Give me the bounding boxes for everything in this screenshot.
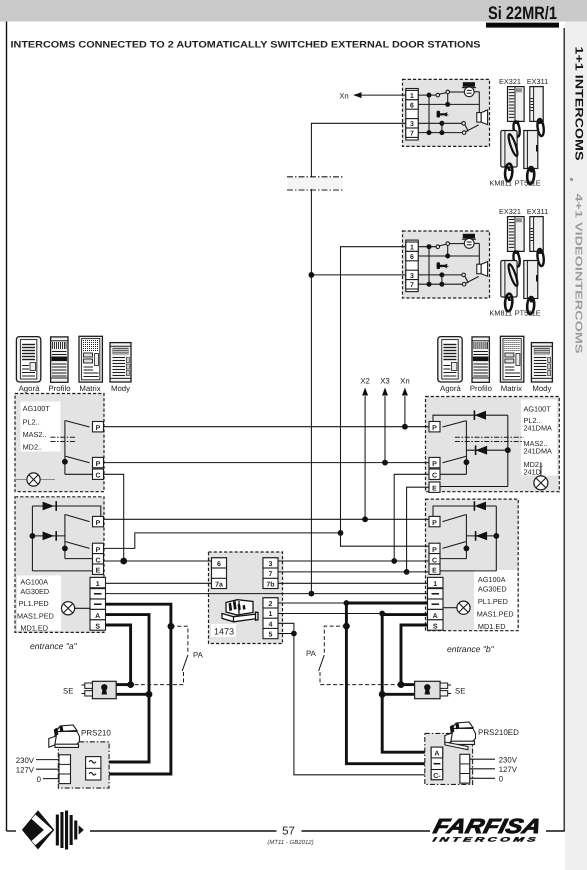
Mody icon — [110, 343, 131, 382]
C row internal wire — [440, 473, 466, 475]
Xn arrow wire from intercom1 terminal 1 — [354, 94, 406, 96]
footer rule mid-right segment — [302, 830, 431, 832]
label backgrounds — [521, 400, 557, 476]
svg-text:PRS210: PRS210 — [81, 729, 111, 738]
mains wires — [470, 758, 495, 760]
wire C vertical left (upper C to lower C row) — [104, 474, 124, 561]
terminal A — [428, 609, 444, 619]
buzzer body — [464, 87, 474, 97]
label backgrounds — [21, 402, 61, 452]
terminal minus — [428, 589, 444, 599]
junction dot C riser left — [120, 558, 127, 565]
wire E vertical right (upper E jog down to lower E row) — [407, 487, 429, 572]
junction dot row6/buzzer — [445, 102, 450, 107]
svg-text:PL2..: PL2.. — [23, 418, 40, 427]
svg-text:E: E — [432, 486, 437, 493]
wire P row (lower boxes) — [104, 518, 430, 520]
ACI Farfisa diamond logo (footer left) — [16, 806, 90, 854]
junction dot E riser right — [404, 569, 410, 575]
svg-text:S: S — [95, 624, 100, 631]
terminal P — [429, 543, 440, 553]
riser wire A from intercom1 terminal 3 — [311, 123, 405, 593]
terminal S — [90, 620, 106, 630]
label backgrounds — [17, 576, 61, 631]
svg-text:0: 0 — [37, 775, 42, 784]
diode D1 (right box) — [475, 502, 487, 511]
SE right stub bottom — [382, 693, 414, 696]
junction dot riser A / minus bus — [309, 591, 315, 597]
wire 1473 terminal 7 to right box E — [278, 571, 429, 573]
svg-text:P: P — [432, 547, 437, 554]
terminal P — [93, 516, 104, 526]
terminal C — [93, 554, 104, 564]
junction dot diode loop — [30, 533, 36, 539]
svg-text:Xn: Xn — [339, 91, 349, 100]
PRS210ED output terminal block A,-,C — [431, 747, 443, 780]
lamp wires — [15, 479, 27, 481]
svg-text:AG100T: AG100T — [524, 405, 552, 414]
row-3 switch blade — [465, 125, 469, 132]
label 1473 — [211, 624, 236, 637]
wire C vertical right (upper C jog down to lower C row) — [394, 474, 429, 561]
junction dot riser B end — [338, 530, 344, 536]
svg-text:SE: SE — [63, 687, 73, 696]
junction dot Xn/P row — [402, 424, 408, 430]
svg-text:Matrix: Matrix — [79, 384, 100, 393]
svg-text:0: 0 — [499, 775, 504, 784]
terminal P — [93, 543, 104, 553]
switch blade 2 — [66, 456, 90, 463]
C row internal wire — [65, 473, 93, 475]
SE right stub top — [401, 683, 415, 686]
svg-text:PRS210ED: PRS210ED — [478, 728, 519, 737]
svg-text:5: 5 — [269, 632, 273, 639]
svg-text:P: P — [96, 425, 101, 432]
svg-text:EX311: EX311 — [527, 77, 548, 86]
terminal minus — [90, 589, 106, 599]
EX311 hanging handset — [538, 121, 543, 124]
svg-text:C: C — [432, 557, 437, 564]
svg-text:241D: 241D — [524, 468, 541, 477]
terminal P — [429, 422, 440, 432]
KM811 handset lying across — [507, 133, 519, 156]
1473 enclosure — [209, 552, 283, 644]
intercom model icons row (right group) — [438, 336, 553, 393]
vertical wire right of diodes — [507, 415, 509, 486]
svg-text:AG30ED: AG30ED — [20, 587, 49, 596]
lamp (crossed circle) — [27, 473, 40, 486]
terminal 1 — [428, 577, 444, 587]
header gray band — [0, 0, 587, 22]
svg-text:PL1.PED: PL1.PED — [478, 597, 508, 606]
svg-text:241DMA: 241DMA — [524, 424, 553, 433]
terminal P — [429, 457, 440, 467]
svg-text:P: P — [432, 425, 437, 432]
lamp (crossed circle) — [62, 602, 75, 615]
svg-text:X2: X2 — [360, 377, 370, 386]
Agora icon — [16, 337, 40, 382]
svg-text:PA: PA — [193, 651, 204, 660]
terminal E — [93, 564, 104, 574]
junction dot riser A / intercom2 terminal 3 — [309, 272, 315, 278]
wire intercom2 terminal 3 to riser A — [311, 274, 405, 276]
sidebar background — [565, 22, 587, 870]
PRS210 transformer pictogram — [49, 725, 80, 747]
terminal S — [428, 620, 444, 630]
phone set group 2 — [490, 207, 549, 318]
svg-text:P: P — [96, 461, 101, 468]
intercom 1 enclosure — [403, 79, 490, 146]
svg-text:Mody: Mody — [111, 384, 130, 393]
terminal A — [90, 609, 106, 619]
svg-text:127V: 127V — [16, 765, 35, 774]
lamp wire — [443, 607, 457, 609]
wire right S down to SE — [401, 625, 428, 685]
lamp wire — [75, 607, 93, 609]
svg-text:entrance "a": entrance "a" — [30, 641, 78, 651]
PA switch blade — [319, 655, 325, 671]
svg-text:AG100A: AG100A — [20, 577, 48, 586]
SE left stub bottom — [116, 693, 149, 696]
svg-text:6: 6 — [410, 102, 414, 109]
svg-text:AG100A: AG100A — [478, 575, 506, 584]
hook switch blade — [439, 93, 446, 95]
internal row-3 wire — [418, 122, 462, 124]
internal vertical wire rows 1-7 — [428, 95, 430, 133]
PRS210 mains terminal block — [59, 755, 71, 784]
svg-text:A: A — [95, 613, 100, 620]
svg-text:230V: 230V — [499, 755, 518, 764]
junction dot D2/vertical — [505, 447, 511, 453]
1473 right lower terminal block — [263, 598, 278, 639]
terminal C — [93, 469, 104, 479]
svg-text:127V: 127V — [499, 765, 518, 774]
FARFISA intercoms logo (footer right) — [430, 815, 544, 844]
AG100T right enclosure — [426, 397, 560, 492]
svg-text:FARFISA: FARFISA — [431, 815, 544, 838]
svg-text:MAS2..: MAS2.. — [23, 430, 47, 439]
row-7 contact circle — [462, 131, 466, 135]
wire from 4/5 junction down to PRS210ED C- — [294, 634, 431, 775]
lamp (crossed circle) — [534, 476, 548, 490]
junction dot X3/P2 row — [382, 460, 388, 466]
diode loop top wire — [433, 415, 508, 421]
junction dot X2/P row — [362, 516, 368, 522]
switch blade 2 — [443, 542, 466, 549]
svg-text:KM811: KM811 — [490, 179, 513, 188]
footer rule left segment — [7, 830, 23, 832]
junction dot diode loop — [493, 533, 499, 539]
door station left enclosure — [15, 497, 104, 633]
C row internal wire — [440, 558, 466, 560]
mains wires — [36, 759, 59, 761]
mechanical coupling lines — [455, 436, 524, 438]
wire left box 1 to 1473 terminal 7a — [106, 582, 212, 584]
switch blade 1 — [443, 421, 466, 427]
svg-text:7b: 7b — [266, 581, 274, 589]
wire P row (top) left box P to right box P — [104, 426, 430, 428]
Profilo icon — [51, 337, 68, 382]
svg-text:Si 22MR/1: Si 22MR/1 — [488, 3, 557, 23]
wire left minus2 to PRS210 lower ~ — [101, 604, 171, 774]
svg-text:P: P — [96, 520, 101, 527]
mechanical coupling lines — [50, 436, 76, 438]
svg-text:I N T E R C O M S: I N T E R C O M S — [432, 837, 538, 844]
terminal 1 — [90, 577, 106, 587]
terminal C — [429, 469, 440, 479]
1473 hand pressing button icon — [222, 600, 258, 622]
PT511E intercom unit — [524, 131, 538, 185]
internal junction dots — [427, 93, 432, 98]
diode D2 (left box) — [43, 532, 55, 541]
junction dot 4/5 — [291, 631, 297, 637]
sidebar separator dot — [570, 178, 573, 181]
diode D2 — [476, 446, 488, 455]
label backgrounds — [474, 570, 518, 630]
wire 1473 terminal 1 to junction — [278, 613, 382, 615]
E row internal wire — [440, 486, 508, 488]
wire 1473 terminal 4 jog down — [278, 623, 294, 633]
terminal minus 2 — [428, 599, 444, 609]
sidebar divider line — [563, 28, 565, 831]
terminal minus 2 — [90, 599, 106, 609]
svg-text:7: 7 — [269, 571, 273, 578]
svg-text:X3: X3 — [380, 377, 390, 386]
wire 1473 terminal 5 to junction — [278, 633, 294, 635]
speaker — [477, 113, 481, 123]
svg-text:1: 1 — [433, 581, 437, 588]
row-3 contact circle — [462, 122, 466, 126]
svg-text:PA: PA — [306, 649, 317, 658]
svg-text:E: E — [96, 568, 101, 575]
svg-text:P: P — [432, 461, 437, 468]
header black bar — [486, 23, 559, 28]
wire P2 row lower boxes with jogs — [104, 533, 430, 549]
EX311 wall intercom — [530, 87, 545, 137]
diode row 2 wire — [466, 449, 507, 451]
row-7 blade to speaker — [466, 125, 479, 132]
buzzer right lead down to speaker — [478, 92, 480, 113]
wire 1473 terminal 3 to right box C — [278, 560, 429, 562]
wire right minus2 to PRS210ED minus — [346, 603, 431, 764]
switch blade 2 — [66, 542, 90, 549]
svg-text:EX321: EX321 — [499, 77, 521, 86]
door station right enclosure — [426, 499, 519, 631]
svg-text:MD2..: MD2.. — [23, 443, 42, 452]
X3 riser wire — [384, 396, 386, 463]
wire minus bus row (full width) — [106, 593, 428, 595]
junction dots right heavy wiring — [343, 623, 350, 630]
hook contact circles — [436, 93, 440, 97]
svg-text:C-: C- — [433, 773, 441, 780]
svg-text:Agorà: Agorà — [19, 384, 40, 393]
lamp (crossed circle) — [457, 601, 470, 614]
SE left stub top — [116, 683, 130, 686]
svg-text:S: S — [433, 624, 438, 631]
svg-text:INTERCOMS CONNECTED TO 2 AUTOM: INTERCOMS CONNECTED TO 2 AUTOMATICALLY S… — [11, 39, 481, 50]
SE right bracket — [440, 683, 448, 688]
junction dot 1473-2 / minus2 — [344, 600, 350, 606]
pivot junction dot — [62, 546, 68, 552]
footer rule right segment — [546, 830, 565, 832]
svg-text:241DMA: 241DMA — [524, 447, 553, 456]
PRS210 output terminal block (~ ~) — [86, 757, 101, 780]
terminal E — [429, 564, 440, 574]
terminal P — [429, 516, 440, 526]
switch blade 1 — [66, 421, 90, 427]
svg-text:P: P — [432, 520, 437, 527]
pivot vertical wire — [64, 420, 66, 474]
wire 1473 terminal 2 to right box minus2 — [278, 602, 346, 604]
riser break symbol — [287, 177, 344, 190]
page left border line — [6, 22, 8, 832]
EX321 wall intercom — [508, 87, 525, 138]
junction dot C riser right — [391, 558, 397, 564]
pivot vertical wire — [465, 514, 467, 558]
diode loop wires — [32, 506, 100, 517]
wire left S down to SE — [106, 625, 131, 685]
wire P2 row left box P to right box P — [104, 462, 430, 464]
KM811 cord hook — [507, 167, 512, 171]
SE left bracket — [85, 683, 93, 688]
svg-text:4: 4 — [269, 621, 273, 628]
pivot vertical wire — [64, 514, 66, 558]
Matrix icon — [79, 336, 102, 382]
svg-text:C: C — [432, 473, 437, 480]
svg-text:AG30ED: AG30ED — [478, 585, 507, 594]
svg-text:MAS1.PED: MAS1.PED — [17, 611, 54, 620]
svg-text:1: 1 — [96, 581, 100, 588]
terminal E — [429, 482, 440, 492]
svg-text:Profilo: Profilo — [48, 384, 71, 393]
X2 riser wire — [364, 396, 366, 519]
svg-text:MD1.ED: MD1.ED — [478, 622, 506, 631]
AG100T left enclosure — [15, 394, 104, 492]
diode D1 — [475, 411, 487, 420]
svg-text:2: 2 — [269, 601, 273, 608]
C row internal wire — [65, 558, 93, 560]
svg-text:1+1 INTERCOMS: 1+1 INTERCOMS — [573, 47, 585, 161]
internal row-7 wire — [418, 132, 462, 134]
PRS210ED transformer pictogram — [445, 722, 476, 744]
EX321 hanging handset — [515, 121, 520, 124]
wire left A to SE junction and PRS210 upper ~ — [101, 615, 149, 762]
buzzer cap — [463, 82, 475, 87]
diode D2 (right box) — [476, 532, 488, 541]
svg-text:1473: 1473 — [214, 627, 234, 637]
svg-text:(MT11 - GB2012): (MT11 - GB2012) — [267, 839, 313, 846]
1473 right upper terminal block — [263, 558, 278, 589]
svg-text:1: 1 — [269, 611, 273, 618]
svg-text:7a: 7a — [215, 582, 223, 589]
pivot junction dot — [464, 459, 470, 465]
wire right A to SE junction and PRS210ED A — [382, 615, 431, 753]
pivot junction dot — [62, 459, 68, 465]
terminal P — [93, 457, 104, 467]
internal row-1 wire — [418, 94, 436, 96]
svg-text:230V: 230V — [16, 756, 35, 765]
switch blade 2 — [443, 456, 466, 462]
KM811 intercom unit — [501, 131, 519, 182]
svg-text:C: C — [95, 473, 100, 480]
svg-text:A: A — [433, 613, 438, 620]
switch blade 1 — [66, 515, 90, 522]
svg-text:E: E — [432, 568, 437, 575]
svg-text:3: 3 — [269, 561, 273, 568]
buzzer branch down to row 6 — [447, 94, 449, 105]
svg-text:MAS1.PED: MAS1.PED — [477, 610, 514, 619]
buzzer lead left — [450, 91, 465, 93]
svg-text:A: A — [434, 751, 439, 758]
diode D1 (left box) — [43, 502, 55, 511]
junction dots left heavy wiring — [168, 623, 175, 630]
switch blade 1 — [443, 515, 466, 522]
svg-text:C: C — [95, 557, 100, 564]
svg-text:3: 3 — [410, 121, 414, 128]
svg-text:MD1.ED: MD1.ED — [20, 623, 48, 632]
svg-text:PT511E: PT511E — [515, 179, 541, 188]
lamp stub wire — [540, 462, 542, 476]
intercom 1 terminal block — [406, 89, 418, 141]
PRS210ED mains terminal block — [460, 754, 470, 783]
terminal P — [93, 422, 104, 432]
svg-text:PL1.PED: PL1.PED — [19, 599, 49, 608]
svg-text:6: 6 — [217, 561, 221, 568]
svg-text:Xn: Xn — [400, 377, 410, 386]
1473 left terminal block — [212, 558, 227, 589]
svg-text:1: 1 — [410, 93, 414, 100]
footer rule mid-left segment — [88, 830, 277, 832]
terminal C — [429, 554, 440, 564]
junction dot 1473-1 / A — [379, 611, 385, 617]
svg-text:4+1 VIDEOINTERCOMS: 4+1 VIDEOINTERCOMS — [573, 194, 584, 355]
diode loop wires — [433, 506, 496, 517]
svg-text:AG100T: AG100T — [23, 404, 51, 413]
svg-text:entrance "b": entrance "b" — [447, 644, 495, 654]
svg-text:57: 57 — [282, 826, 295, 838]
PA switch blade — [182, 655, 188, 671]
pivot vertical wire — [465, 421, 467, 475]
internal row-6 wire — [418, 103, 479, 105]
svg-text:SE: SE — [455, 687, 465, 696]
svg-text:P: P — [96, 547, 101, 554]
mute key symbol — [437, 111, 440, 118]
PT511E cord hook — [529, 169, 534, 173]
svg-text:7: 7 — [410, 131, 414, 138]
wire C row left (left C to 1473 terminal 6) — [104, 560, 212, 562]
pivot junction dot — [464, 546, 470, 552]
Xn riser wire — [404, 396, 406, 427]
riser wire B from intercom2 terminal 1 — [341, 247, 406, 533]
wire 1473 terminal 7b to right box 1 — [278, 582, 428, 584]
